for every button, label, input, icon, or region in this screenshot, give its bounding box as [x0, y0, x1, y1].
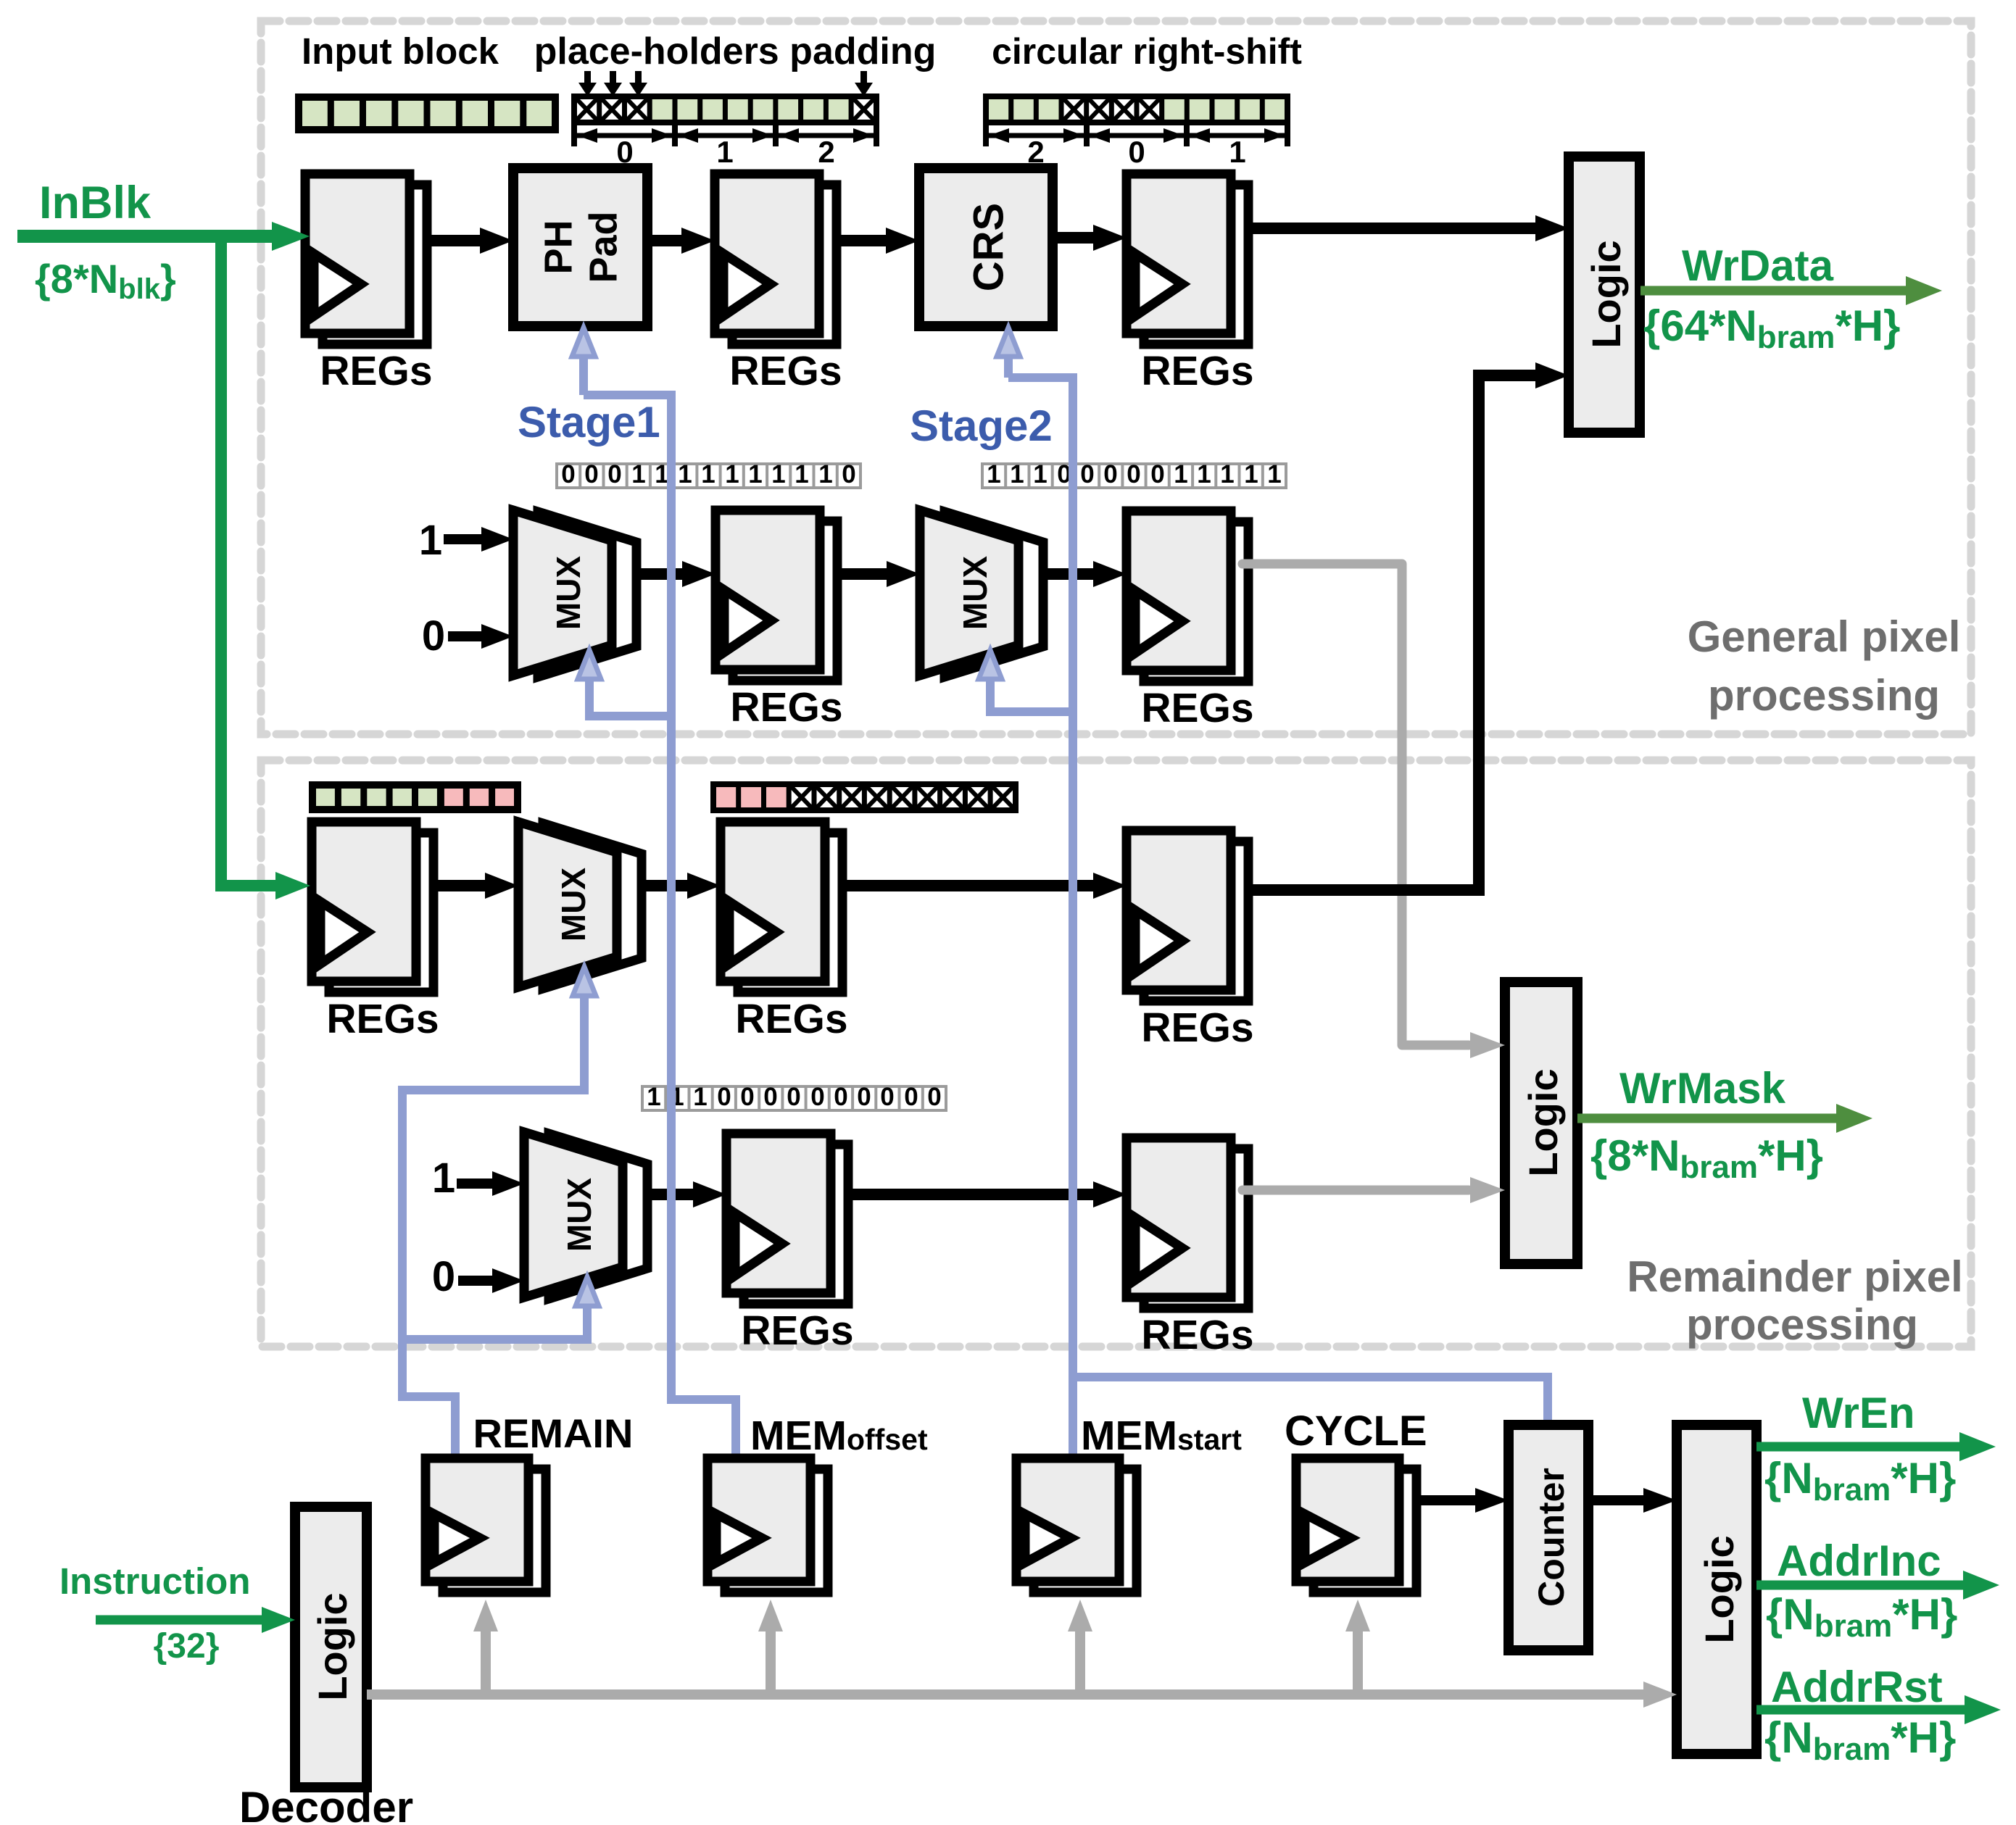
wire gray branch to CYCLE [1345, 1600, 1370, 1695]
wire Stage2 control net (blue) [990, 339, 1548, 1458]
svg-text:Input block: Input block [302, 30, 499, 72]
svg-text:1: 1 [987, 460, 1000, 489]
svg-text:1: 1 [1010, 460, 1024, 489]
svg-text:AddrRst: AddrRst [1771, 1663, 1943, 1711]
svg-text:Logic: Logic [1520, 1068, 1566, 1176]
arrowhead REMAIN to M4 select [576, 1277, 599, 1306]
strip: place-holders padding (3 hatched, 8 green, 1 hatched) [574, 96, 876, 122]
register REGs R1 (row1 input) [305, 174, 427, 344]
wire gray branch to MEMstart [1068, 1600, 1092, 1695]
svg-text:0: 0 [1127, 460, 1140, 489]
svg-text:REGs: REGs [729, 348, 842, 394]
block Logic L3 (address logic) [1677, 1425, 1756, 1754]
svg-text:Counter: Counter [1531, 1468, 1572, 1607]
arrowhead Stage2 to CRS [997, 328, 1020, 357]
wire M1 to R4 [641, 561, 715, 587]
strip: input block (8 green cells) [299, 97, 555, 130]
svg-text:Pad: Pad [581, 211, 625, 283]
svg-text:1: 1 [419, 517, 442, 564]
svg-text:Logic: Logic [1696, 1535, 1742, 1643]
mux M3 [518, 822, 642, 989]
svg-text:0: 0 [717, 1083, 731, 1111]
svg-text:{32}: {32} [154, 1627, 220, 1666]
wire R4 to M2 [837, 561, 920, 587]
svg-text:1: 1 [771, 460, 785, 489]
wire gray branch to REMAIN [473, 1600, 498, 1695]
register REGs R10 [1127, 1138, 1248, 1308]
mux M2 [920, 510, 1043, 677]
wire AddrRst output arrow [1756, 1695, 2001, 1724]
svg-text:0: 0 [422, 612, 445, 660]
register REGs R9 [726, 1134, 848, 1304]
wire WrEn output arrow [1756, 1432, 1996, 1461]
svg-text:REGs: REGs [730, 684, 842, 731]
wire InBlk branch to R6 [221, 239, 310, 899]
register REGs R2 [715, 174, 837, 344]
svg-text:0: 0 [787, 1083, 800, 1111]
svg-text:Remainder pixel: Remainder pixel [1627, 1252, 1963, 1301]
wire R7 to R8 [842, 873, 1127, 899]
wire WrMask output arrow [1577, 1104, 1872, 1133]
svg-text:REGs: REGs [1141, 348, 1253, 394]
svg-text:1: 1 [693, 1083, 707, 1111]
svg-text:REGs: REGs [735, 996, 847, 1042]
svg-text:1: 1 [678, 460, 692, 489]
svg-text:WrEn: WrEn [1802, 1389, 1915, 1437]
arrowhead REMAIN to M3 select [573, 967, 596, 996]
svg-text:1: 1 [647, 1083, 660, 1111]
wire InBlk arrow to R1 [17, 222, 310, 251]
svg-text:0: 0 [842, 460, 855, 489]
svg-text:1: 1 [631, 460, 645, 489]
svg-text:Logic: Logic [1583, 240, 1629, 348]
wire gray branch to MEMoffset [758, 1600, 783, 1695]
register REGs R3 [1127, 174, 1248, 344]
padding insert arrows (3 left, 1 right) [578, 71, 873, 96]
svg-text:0: 0 [834, 1083, 847, 1111]
register REGs R8 [1127, 831, 1248, 1001]
svg-text:0: 0 [740, 1083, 754, 1111]
strip: circular right-shift (3 green, 4 hatched, 5 green) [986, 96, 1287, 122]
wire R5 to Logic L2 (gray) [1243, 564, 1505, 1058]
svg-text:REGs: REGs [1141, 685, 1253, 731]
svg-text:CYCLE: CYCLE [1285, 1408, 1427, 1455]
svg-text:0: 0 [810, 1083, 824, 1111]
register MEMoffset [708, 1458, 828, 1592]
arrowhead Stage2 to M2 select [979, 650, 1002, 679]
svg-text:REGs: REGs [1141, 1005, 1253, 1051]
register REGs R4 [715, 510, 837, 681]
svg-text:0: 0 [561, 460, 575, 489]
block Logic L2 (WrMask logic) [1505, 982, 1577, 1264]
wire R6 to M3 [434, 873, 518, 899]
svg-text:CRS: CRS [965, 203, 1012, 291]
wire REMAIN select net (blue) [402, 977, 587, 1458]
register REGs R5 [1127, 511, 1248, 681]
strip: remainder mask cells (3 pink, 9 hatched) [713, 784, 1016, 810]
wire const1 to M1 [444, 527, 513, 552]
svg-text:WrData: WrData [1682, 241, 1834, 290]
wire M3 to R7 [646, 873, 721, 899]
svg-text:1: 1 [748, 460, 762, 489]
svg-text:Logic: Logic [310, 1592, 355, 1700]
svg-text:REGs: REGs [741, 1308, 853, 1354]
svg-text:1: 1 [725, 460, 739, 489]
binary bar Stage2 constant 1110000011111 [982, 460, 1286, 489]
svg-text:REMAIN: REMAIN [473, 1410, 634, 1456]
wire M4 to R9 [652, 1181, 726, 1207]
dashed region box: General pixel processing [261, 21, 1971, 734]
mux M4 [524, 1132, 647, 1299]
wire const0 to M1 [448, 624, 513, 649]
strip: row3 block cells (5 green, 3 pink) [312, 785, 518, 810]
svg-text:REGs: REGs [320, 348, 432, 394]
dashed region box: Remainder pixel processing [261, 760, 1971, 1347]
span measure 2/0/1 under shift strip [986, 125, 1287, 169]
wire CRS to R3 [1053, 225, 1127, 251]
svg-text:Stage2: Stage2 [910, 402, 1053, 450]
svg-text:0: 0 [1080, 460, 1094, 489]
wire R2 to CRS [837, 228, 919, 254]
wire const0 to M4 [458, 1268, 524, 1293]
svg-text:1: 1 [818, 460, 832, 489]
svg-text:0: 0 [763, 1083, 777, 1111]
svg-text:WrMask: WrMask [1619, 1064, 1786, 1113]
block Logic L1 (WrData logic) [1569, 157, 1640, 433]
svg-text:1: 1 [701, 460, 715, 489]
svg-text:0: 0 [432, 1253, 455, 1300]
wire decoder gray bus [367, 1681, 1677, 1708]
svg-text:0: 0 [927, 1083, 941, 1111]
register REGs R6 (remainder input) [312, 822, 434, 992]
span measure 0/1/2 under padding strip [574, 125, 876, 169]
svg-text:Decoder: Decoder [239, 1783, 413, 1825]
svg-text:REGs: REGs [1141, 1312, 1253, 1358]
svg-text:1: 1 [1267, 460, 1281, 489]
svg-text:0: 0 [607, 460, 621, 489]
svg-text:processing: processing [1708, 671, 1940, 720]
block PH Pad [513, 168, 647, 326]
arrowhead Stage1 to PH Pad [572, 328, 595, 357]
svg-text:1: 1 [716, 135, 733, 169]
svg-text:circular right-shift: circular right-shift [992, 31, 1302, 72]
svg-text:AddrInc: AddrInc [1777, 1537, 1941, 1585]
arrowhead Stage1 to M1 select [578, 650, 601, 679]
wire R3 to Logic L1 [1248, 215, 1569, 241]
svg-text:1: 1 [432, 1155, 455, 1202]
wire const1 to M4 [457, 1171, 524, 1196]
svg-text:1: 1 [1174, 460, 1187, 489]
svg-text:1: 1 [1197, 460, 1211, 489]
svg-text:processing: processing [1686, 1300, 1918, 1349]
svg-text:1: 1 [1244, 460, 1258, 489]
register REGs R7 [721, 822, 842, 992]
svg-text:0: 0 [904, 1083, 918, 1111]
svg-text:InBlk: InBlk [39, 178, 152, 228]
svg-text:Instruction: Instruction [59, 1560, 251, 1602]
register MEMstart [1016, 1458, 1137, 1592]
wire Counter to Logic L3 [1588, 1488, 1677, 1513]
wire Instruction arrow to Decoder [96, 1607, 295, 1633]
svg-text:1: 1 [1220, 460, 1234, 489]
wire PH Pad to R2 [647, 228, 715, 254]
wire AddrInc output arrow [1756, 1571, 1999, 1600]
svg-text:PH: PH [536, 220, 580, 274]
svg-text:1: 1 [795, 460, 808, 489]
wire CYCLE to Counter [1418, 1488, 1509, 1513]
svg-text:0: 0 [1128, 135, 1145, 169]
svg-text:0: 0 [1150, 460, 1164, 489]
svg-text:0: 0 [857, 1083, 871, 1111]
wire WrData output arrow [1640, 276, 1942, 305]
svg-text:1: 1 [1229, 135, 1245, 169]
svg-text:Stage1: Stage1 [518, 398, 660, 446]
wire M2 to R5 [1048, 561, 1127, 587]
svg-text:place-holders padding: place-holders padding [534, 30, 937, 72]
wire R9 to R10 [848, 1181, 1127, 1207]
block Counter [1509, 1425, 1588, 1650]
binary bar REMAIN constant 1110000000000 [642, 1083, 946, 1111]
svg-text:2: 2 [818, 135, 834, 169]
register REMAIN [426, 1458, 546, 1592]
wire Stage1 control net (blue) [584, 339, 736, 1458]
register CYCLE [1296, 1458, 1416, 1592]
wire R10 to Logic L2 (gray) [1243, 1177, 1505, 1203]
svg-text:0: 0 [1103, 460, 1117, 489]
block Logic Decoder [295, 1507, 367, 1787]
svg-text:General pixel: General pixel [1688, 612, 1961, 661]
block CRS (circular right shift) [919, 168, 1053, 326]
svg-text:1: 1 [1033, 460, 1047, 489]
svg-text:1: 1 [655, 460, 668, 489]
svg-text:0: 0 [584, 460, 598, 489]
wire R8 to Logic L1 (up) [1248, 362, 1569, 890]
mux M1 [513, 510, 636, 677]
svg-text:0: 0 [880, 1083, 894, 1111]
wire R1 to PH Pad [427, 228, 513, 254]
binary bar Stage1 constant 0001111111110 [557, 460, 860, 489]
svg-text:REGs: REGs [326, 996, 439, 1042]
